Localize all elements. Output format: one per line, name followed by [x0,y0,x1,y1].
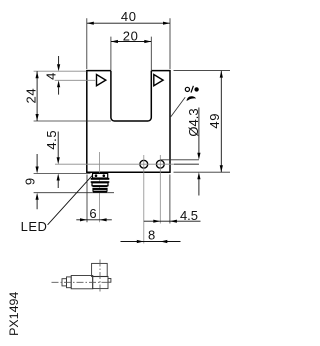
sensor body outline [86,70,171,172]
hole 2 [156,160,164,168]
side view nose step [67,277,72,288]
side view main body [71,276,93,289]
side view right nub [108,279,111,283]
dimension 40 [87,22,170,24]
svg-text:6: 6 [89,206,96,221]
side view center line horizontal [52,281,112,283]
symbol leader line [171,97,185,117]
svg-text:4.5: 4.5 [180,208,198,223]
hole top tangent extension [160,159,199,161]
20 dim extension lines [111,37,151,70]
optical axis extension left [55,79,95,81]
hole1 center vertical [143,155,145,244]
dimension 49 [220,71,222,173]
svg-text:40: 40 [121,9,137,24]
dimension 4 (top left) [58,56,60,95]
hole2 center vertical [159,155,161,224]
svg-text:Ø4.3: Ø4.3 [186,108,201,136]
svg-text:9: 9 [22,178,37,185]
slot bottom extension [34,120,111,122]
thin extension lines [34,18,230,223]
hole axis extension right [174,163,199,165]
optical triangle right arm [154,75,163,86]
connector bottom extension [34,192,114,194]
dimension 6 [76,219,112,221]
hole 1 [140,160,148,168]
dimension 24 [36,71,38,121]
hole axis line [55,163,199,165]
svg-text:49: 49 [207,113,222,129]
emitter/receiver symbol o/filled [185,87,189,91]
curved mark under symbol [187,96,197,101]
side view nose tip [62,279,67,286]
center/extension gray lines [34,71,199,243]
optical triangle left arm [97,75,106,86]
side view small drawing [62,263,111,288]
body top extension right [174,70,231,72]
LED leader line [48,176,93,225]
connector center vertical [99,152,101,222]
dimension 9 [36,154,38,209]
body bottom extension right [174,171,231,173]
svg-text:LED: LED [21,219,48,234]
40 dim extension lines [87,18,170,69]
side view right block [93,276,108,288]
dimension 4.5 (left) [57,132,59,189]
connector block below body [91,173,110,192]
side view top box [92,263,108,276]
dimension 20 [111,41,151,43]
svg-text:24: 24 [23,88,38,104]
bottom-left ref line [34,173,91,175]
dimension 8 [121,241,181,243]
side view center line vertical [99,260,101,293]
svg-text:8: 8 [148,227,155,242]
body left edge extension below [86,175,88,223]
dimension 4.5 (bottom right) [144,220,201,222]
svg-text:4.5: 4.5 [44,130,59,150]
svg-text:4: 4 [43,73,58,80]
svg-text:PX1494: PX1494 [7,292,21,336]
svg-text:20: 20 [123,29,139,44]
diameter 4.3 callout leader [198,108,200,196]
top edge extension left [34,70,87,72]
body right edge extension below [169,175,171,224]
